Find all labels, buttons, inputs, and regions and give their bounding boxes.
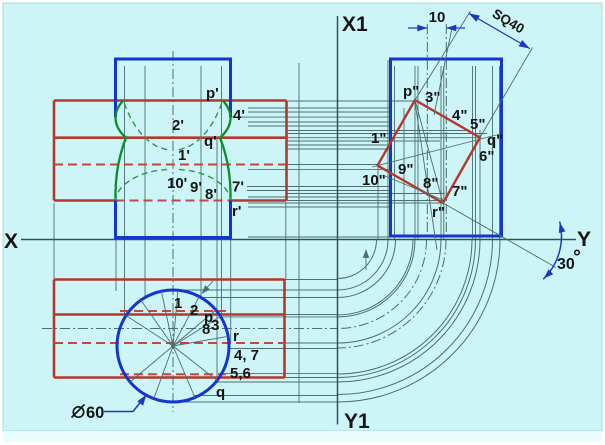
depth transfer line y=395.5 [194, 395, 338, 397]
depth transfer line y=297.5 [201, 297, 338, 299]
transfer line y=117.1 [231, 116, 391, 118]
depth transfer line y=314.5 [285, 314, 338, 316]
depth transfer arc r=39 [338, 240, 377, 279]
leader arrow tip [202, 285, 210, 294]
circle centre dot [171, 344, 175, 348]
circle spoke 40 deg [173, 310, 216, 346]
transfer line y=197 [248, 196, 391, 198]
depth transfer arc r=103.5 [338, 240, 442, 344]
circle spoke 125 deg [141, 300, 173, 346]
front cylinder left edge upper [114, 59, 117, 117]
depth transfer arc r=138 [338, 240, 476, 378]
side view projection vertical x=404 [403, 108, 405, 235]
side view projection vertical x=418 [417, 66, 419, 240]
transfer line y=122 [248, 121, 391, 123]
svg-text:10: 10 [429, 9, 446, 26]
dim 10 line left [408, 27, 427, 29]
top prism near edge [54, 278, 285, 281]
svg-text:30: 30 [557, 256, 575, 273]
30deg inclined line [443, 203, 556, 268]
svg-text:5": 5" [470, 116, 485, 133]
depth transfer line y=290 [173, 289, 338, 291]
generator projection line x=145.0 [144, 66, 146, 298]
svg-text:5,6: 5,6 [230, 365, 251, 382]
svg-text:8: 8 [202, 321, 210, 338]
depth transfer arc r=75.5 [338, 240, 414, 316]
bottom light strip [3, 431, 602, 442]
auxiliary line X1-Y1 [337, 16, 339, 425]
top prism hidden line above p [120, 310, 226, 312]
depth transfer arc r=162.5 [338, 240, 501, 403]
dia60 leader line [104, 397, 145, 412]
front prism top edge p [54, 99, 287, 102]
side cylinder outline [391, 59, 502, 236]
transfer line y=130.5 [287, 130, 470, 132]
top prism left edge [53, 280, 56, 378]
svg-text:r: r [233, 328, 239, 345]
generator projection line x=201.0 [200, 66, 202, 298]
hidden intersection curve upper left [123, 101, 167, 150]
depth transfer arc r=89 [338, 240, 427, 329]
side view projection vertical x=415 [414, 66, 416, 240]
side prism square outline [378, 100, 481, 203]
svg-text:10": 10" [362, 172, 386, 189]
side view projection vertical x=394.5 [394, 66, 396, 240]
projection vertical left generator [115, 240, 117, 291]
hidden intersection curve upper right [179, 101, 223, 150]
side view projection vertical x=492.5 [492, 66, 494, 240]
svg-text:r': r' [232, 203, 241, 220]
svg-text:10': 10' [167, 175, 187, 192]
transfer line y=101 [287, 100, 416, 102]
svg-text:8': 8' [205, 186, 217, 203]
circle spoke 85 deg [173, 290, 178, 346]
svg-text:p": p" [403, 83, 419, 100]
depth transfer arc r=58 [338, 240, 396, 298]
depth transfer arc r=50.5 [338, 240, 389, 291]
top prism hidden line above far edge [120, 373, 226, 375]
front prism bottom edge r (left) [54, 199, 118, 202]
circle spoke 32 deg [173, 316, 221, 346]
depth transfer arc r=134.5 [338, 240, 473, 375]
30deg degree symbol [575, 250, 580, 255]
small leader arrowhead [363, 249, 369, 258]
side view projection vertical x=480 [479, 130, 481, 240]
prism axis centre line (top view) [42, 328, 338, 330]
circle spoke 220 deg [130, 346, 173, 382]
svg-text:3": 3" [425, 89, 440, 106]
svg-text:X: X [4, 230, 18, 253]
svg-text:60: 60 [86, 404, 104, 422]
transfer line y=145 [287, 144, 391, 146]
side view projection vertical x=441 [440, 66, 442, 240]
depth transfer line y=373.6 [226, 373, 338, 375]
svg-text:q: q [216, 384, 225, 401]
cylinder axis centre line (side view) [445, 24, 447, 235]
front prism edge q [54, 136, 287, 139]
SQ40 extension from q" [480, 48, 533, 138]
depth transfer line y=377.5 [285, 377, 338, 379]
svg-text:r": r" [432, 204, 445, 221]
front cylinder left edge lower [114, 201, 117, 238]
dia60 symbol circle [73, 407, 83, 417]
depth transfer arc r=77.5 [338, 240, 416, 318]
centre line of cylinder (front/top views) [172, 51, 174, 412]
svg-text:7": 7" [452, 183, 467, 200]
circle spoke 250 deg [154, 346, 173, 399]
projection line q front-to-top [216, 138, 218, 383]
svg-text:6": 6" [479, 148, 494, 165]
depth transfer arc r=142.5 [338, 240, 481, 383]
dim 10 arrow left [417, 25, 427, 32]
svg-text:1": 1" [371, 130, 386, 147]
front cylinder right edge upper [229, 59, 232, 117]
transfer line y=200.5 [287, 200, 444, 202]
depth transfer line y=348.5 [229, 348, 338, 350]
transfer line y=169.4 [248, 168, 391, 170]
prism axis centre line (side view) [426, 24, 428, 235]
svg-text:4": 4" [452, 107, 467, 124]
depth transfer arc r=108.5 [338, 240, 447, 349]
transfer line y=126 [248, 125, 391, 127]
30deg arc arrow upper [559, 223, 566, 234]
front prism bottom edge r hidden behind cylinder [116, 200, 231, 202]
transfer line y=186.5 [247, 186, 391, 188]
circle spoke 322 deg [173, 346, 217, 381]
front cylinder bottom edge [114, 236, 232, 239]
top prism far edge q [54, 376, 285, 379]
top prism right edge [283, 280, 286, 378]
circle spoke 102 deg [161, 291, 173, 346]
generator projection line x=221.5 [221, 66, 223, 317]
transfer line y=207 [248, 206, 391, 208]
depth transfer line y=382 [216, 381, 338, 383]
transfer line y=190.5 [247, 190, 391, 192]
svg-text:2: 2 [190, 302, 198, 319]
svg-text:Y: Y [577, 228, 591, 251]
transfer line y=108 [248, 107, 391, 109]
construction vertical x=299 [298, 63, 300, 403]
projection vertical from prism right edge [285, 203, 287, 279]
SQ40 extension from p" [415, 11, 471, 100]
construction line 9"-r" [385, 176, 443, 200]
projection vertical from prism left edge [53, 203, 55, 279]
svg-text:7': 7' [232, 179, 244, 196]
side view projection vertical x=388 [387, 60, 389, 240]
transfer line y=137.7 [287, 137, 481, 139]
transfer line y=112 [248, 111, 391, 113]
30deg dimension arc [543, 222, 561, 280]
svg-text:3: 3 [211, 317, 219, 334]
svg-text:2': 2' [172, 117, 184, 134]
side view projection vertical x=443.8 [443, 66, 445, 240]
front prism bottom edge r (right) [229, 199, 287, 202]
svg-text:q": q" [487, 132, 503, 149]
top prism hidden edge r [54, 342, 285, 344]
svg-text:1': 1' [178, 147, 190, 164]
side view projection vertical x=378 [377, 165, 379, 240]
circle spoke 62 deg [173, 297, 199, 346]
generator projection line x=124.5 [124, 66, 126, 317]
intersection curve right (visible) [220, 101, 231, 201]
svg-text:9': 9' [190, 179, 202, 196]
svg-text:4, 7: 4, 7 [234, 347, 259, 364]
SQ40 arrow upper [469, 13, 480, 22]
depth transfer line y=343 [285, 342, 338, 344]
svg-text:p': p' [206, 85, 219, 102]
front prism left edge [53, 101, 56, 201]
small leader arrow near arcs [365, 251, 367, 270]
transfer line y=141 [287, 140, 440, 142]
construction line p"-8" [415, 102, 437, 250]
circle spoke 10 deg [173, 336, 228, 346]
dim 10 line right [446, 27, 465, 29]
depth transfer arc r=155 [338, 240, 493, 395]
square diagonal p-r [415, 100, 443, 203]
projection vertical right generator [230, 240, 232, 344]
construction diagonal upper [434, 28, 452, 115]
top view circle (cylinder) [117, 290, 229, 402]
dim 10 arrow right [446, 25, 456, 32]
hidden intersection curve lower left [116, 169, 168, 200]
transfer line y=237 [248, 236, 390, 238]
depth transfer line y=402 [173, 401, 338, 403]
transfer line y=193.5 [287, 193, 445, 195]
30deg arc arrow lower [544, 269, 554, 278]
top prism edge p (visible) [54, 313, 285, 316]
svg-text:Y1: Y1 [344, 410, 370, 433]
circle spoke 147 deg [126, 316, 173, 347]
side view projection vertical x=499.5 [499, 66, 501, 240]
side view projection vertical x=472.5 [472, 66, 474, 240]
hidden intersection curve lower right [179, 169, 231, 200]
svg-text:9": 9" [398, 161, 413, 178]
transfer line y=149 [287, 148, 391, 150]
intersection curve left (visible) [116, 101, 127, 201]
svg-text:X1: X1 [342, 13, 368, 36]
svg-text:4': 4' [233, 107, 245, 124]
depth transfer line y=279.5 [285, 279, 338, 281]
square diagonal L-q [372, 134, 500, 167]
front cylinder right edge lower [229, 201, 232, 238]
front prism right edge [285, 101, 288, 201]
side view projection vertical x=475.5 [475, 66, 477, 240]
leader to point 2 on circle [203, 281, 214, 293]
ground line X-Y [21, 239, 576, 241]
SQ40 dimension line [469, 13, 530, 48]
svg-text:q': q' [204, 133, 217, 150]
transfer line y=203 [248, 202, 444, 204]
front prism hidden edge (back corner) [54, 164, 287, 166]
dia60 symbol slash [72, 405, 85, 418]
svg-text:8": 8" [423, 175, 438, 192]
transfer line y=164.5 [287, 164, 378, 166]
dia60 leader arrow [137, 395, 146, 406]
front cylinder top edge [114, 58, 232, 61]
depth transfer line y=316.9 [219, 316, 338, 318]
circle spoke 293 deg [173, 346, 195, 398]
svg-text:1: 1 [174, 295, 182, 312]
SQ40 arrow lower [519, 40, 530, 49]
transfer line y=133.5 [287, 133, 487, 135]
